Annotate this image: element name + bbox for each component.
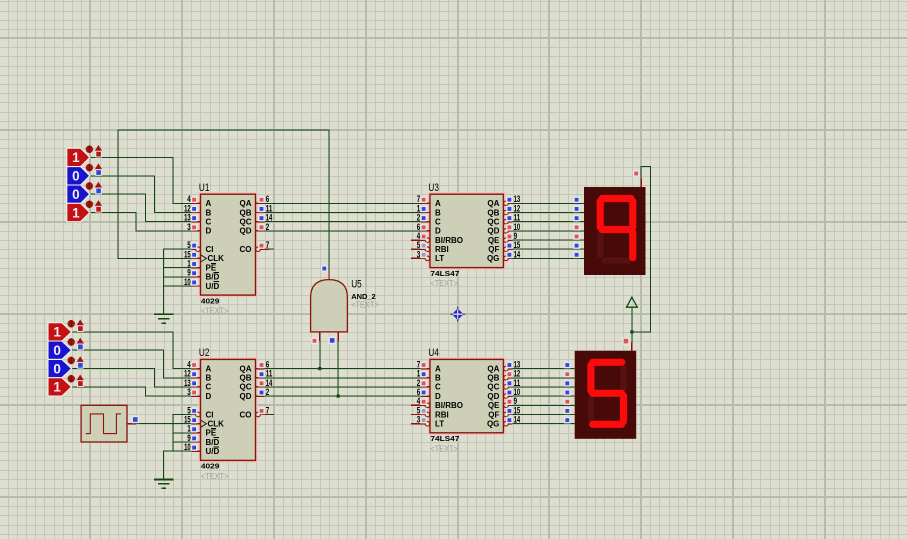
DS1 unlit segments [600, 235, 628, 261]
svg-text:U5: U5 [351, 278, 362, 290]
wire U3.QC to DS1 segment c [513, 221, 584, 223]
svg-text:QB: QB [487, 374, 499, 383]
U3 pin 14 number+state square [507, 249, 520, 259]
U1 pin 11 number+state square [259, 203, 272, 213]
clock output state square [132, 417, 138, 423]
clock generator CLK1 body [81, 405, 127, 442]
wire U2.CI tie [173, 415, 191, 452]
U1 pin 13 number+state square [184, 213, 197, 223]
svg-text:QB: QB [240, 208, 252, 217]
wire STATE8 to U2.D [72, 387, 192, 396]
svg-text:2: 2 [266, 387, 270, 397]
svg-text:10: 10 [184, 277, 191, 287]
wire STATE7 to U2.C [72, 369, 192, 387]
svg-text:QA: QA [240, 364, 252, 373]
logic state STATE6 value 0 [48, 341, 72, 359]
svg-text:A: A [435, 364, 441, 373]
wire U2.QA to U4.A [265, 368, 421, 370]
svg-text:QE: QE [488, 236, 500, 245]
svg-text:CLK: CLK [208, 420, 225, 429]
U4 pin 1 number+state square [417, 369, 427, 379]
logic state STATE5 value 1 [48, 323, 72, 341]
wire U1.B/D tie [164, 276, 192, 278]
U4 pin 3 number+state square [417, 415, 427, 425]
wire U4.QD to DS2 segment d [513, 395, 575, 397]
logic state STATE8 value 1 [48, 378, 72, 396]
U2 pin 10 number+state square [184, 442, 197, 452]
U1 CLK clock wedge pin 15 [201, 255, 207, 262]
svg-text:U1: U1 [199, 182, 210, 194]
svg-text:RBI: RBI [435, 410, 449, 419]
wire CLOCK to U2.CLK [127, 423, 191, 425]
logic state STATE1 toggle button [86, 145, 102, 157]
svg-text:QF: QF [488, 410, 499, 419]
svg-text:AND_2: AND_2 [351, 292, 376, 301]
svg-text:QC: QC [487, 383, 499, 392]
wire U1.PE tie [164, 267, 192, 269]
U1 pin 15 number+state square [184, 249, 197, 259]
svg-text:LT: LT [435, 254, 444, 263]
svg-text:B/D: B/D [206, 438, 220, 447]
U2 pin 3 number+state square [187, 387, 197, 397]
U2 pin 5 number+state square [187, 405, 197, 415]
U3 pin 7 number+state square [417, 194, 427, 204]
logic state STATE4 value 1 [67, 203, 90, 221]
wire STATE4 to U1.D [90, 213, 192, 231]
U5 input state squares [312, 337, 335, 343]
DS1 common pin state square [634, 171, 639, 176]
svg-text:PE: PE [206, 263, 217, 272]
U1 pin 2 number+state square [259, 222, 269, 232]
U4 pin 11 number+state square [507, 378, 520, 388]
wire U4.QB to DS2 segment b [513, 377, 575, 379]
wire U2.QC to U4.C [265, 386, 421, 388]
logic state STATE2 toggle button [86, 163, 102, 175]
svg-text:BI/RBO: BI/RBO [435, 401, 463, 410]
svg-text:U/D: U/D [206, 447, 220, 456]
wire STATE6 to U2.B [72, 350, 192, 378]
svg-text:C: C [435, 383, 441, 392]
IC U3 (74LS47) body [429, 193, 504, 268]
svg-text:74LS47: 74LS47 [430, 434, 459, 443]
wire U4.QG to DS2 segment g [513, 423, 575, 425]
svg-text:PE: PE [206, 429, 217, 438]
wire U3.QA to DS1 segment a [513, 202, 584, 204]
wire DS1 common anode net [632, 167, 650, 343]
junction U2.QD / U5 input [337, 395, 340, 398]
wire STATE3 to U1.C [90, 194, 192, 222]
U3 pin 9 number+state square [507, 231, 517, 241]
svg-text:14: 14 [514, 249, 521, 259]
U2 pin 6 number+state square [259, 360, 269, 370]
U3 pin 12 number+state square [507, 203, 520, 213]
svg-text:CO: CO [240, 245, 252, 254]
svg-text:RBI: RBI [435, 245, 449, 254]
svg-text:LT: LT [435, 420, 444, 429]
U3 pin 10 number+state square [507, 222, 520, 232]
svg-text:1: 1 [53, 380, 61, 395]
junction DS2 common / power stem [630, 330, 633, 333]
U4 pin 2 number+state square [417, 378, 427, 388]
wire STATE2 to U1.B [90, 176, 192, 213]
svg-text:CI: CI [206, 410, 214, 419]
svg-text:3: 3 [417, 249, 421, 259]
logic state STATE7 value 0 [48, 359, 72, 377]
svg-text:U2: U2 [199, 347, 210, 359]
svg-text:QC: QC [240, 218, 252, 227]
wire U1.QA to U3.A [265, 202, 421, 204]
wire U1.QB to U3.B [265, 212, 421, 214]
U4 pin 4 number+state square [417, 396, 427, 406]
wire U2.B/D tie [173, 441, 191, 443]
ground GND2 (U2 control pins) [154, 480, 173, 489]
logic state STATE4 toggle button [86, 200, 102, 212]
svg-text:QB: QB [240, 374, 252, 383]
svg-text:<TEXT>: <TEXT> [430, 444, 458, 453]
U5 output pin stub [328, 271, 330, 280]
DS2 lit segments showing digit [591, 362, 624, 424]
logic state STATE3 value 0 [67, 185, 90, 203]
svg-text:4029: 4029 [201, 462, 220, 471]
svg-text:QC: QC [487, 218, 499, 227]
DS2 segment pin state squares [565, 362, 570, 422]
wire POWER terminal stem [631, 307, 633, 332]
U3 pin 6 number+state square [417, 222, 427, 232]
U1 pin 12 number+state square [184, 203, 197, 213]
DS2 unlit segments [591, 368, 624, 419]
U2 pin 1 number+state square [187, 424, 197, 434]
U4 pin 5 number+state square [417, 405, 427, 415]
U2 CLK clock wedge pin 15 [201, 420, 207, 427]
U2 CO bubble pin 7 [256, 412, 261, 417]
U5 output state square [322, 266, 327, 271]
svg-text:14: 14 [514, 415, 521, 425]
logic state STATE5 toggle button [68, 320, 85, 332]
U1 pin 9 number+state square [187, 268, 197, 278]
svg-text:B: B [435, 208, 441, 217]
svg-text:7: 7 [266, 405, 270, 415]
IC U1 (4029) body [200, 193, 257, 296]
svg-text:2: 2 [266, 222, 270, 232]
svg-text:C: C [435, 218, 441, 227]
U1 pin 6 number+state square [259, 194, 269, 204]
DS1 lit segments showing digit [600, 199, 633, 258]
U1 pin 10 number+state square [184, 277, 197, 287]
svg-text:0: 0 [72, 169, 80, 184]
U2 pin 13 number+state square [184, 378, 197, 388]
svg-text:D: D [206, 392, 212, 401]
IC U2 (4029) body [200, 358, 257, 461]
svg-text:C: C [206, 383, 212, 392]
junction U2.QA / U5 input [318, 367, 321, 370]
wire U5 output to U1.CLK [118, 130, 329, 271]
U3 pin 13 number+state square [507, 194, 520, 204]
svg-text:QC: QC [240, 383, 252, 392]
U2 pin 15 number+state square [184, 415, 197, 425]
U4 pin 6 number+state square [417, 387, 427, 397]
U2 pin 11 number+state square [259, 369, 272, 379]
wire U1.QC to U3.C [265, 221, 421, 223]
DS2 common pin stub [631, 342, 633, 351]
U2 pin name labels [206, 364, 252, 456]
svg-text:1: 1 [72, 205, 80, 220]
svg-text:10: 10 [184, 442, 191, 452]
U1 CI bubble pin 5 [196, 247, 201, 252]
svg-text:A: A [206, 364, 212, 373]
7-segment display DS2 body [575, 351, 637, 439]
U3 pin name labels [435, 199, 500, 263]
svg-text:<TEXT>: <TEXT> [201, 472, 229, 481]
U3 pin 5 number+state square [417, 240, 427, 250]
U3 pin 2 number+state square [417, 213, 427, 223]
svg-text:<TEXT>: <TEXT> [430, 279, 458, 288]
U3 input bubbles (BI/RBO, RBI, LT) [425, 238, 430, 261]
wire U1.CO stub end [265, 248, 274, 250]
svg-text:CLK: CLK [208, 254, 225, 263]
svg-text:74LS47: 74LS47 [430, 269, 459, 278]
logic state STATE1 value 1 [67, 148, 90, 166]
DS2 common pin state square [623, 338, 629, 344]
svg-text:U4: U4 [428, 347, 439, 359]
U3 pin 15 number+state square [507, 240, 520, 250]
U1 pin 5 number+state square [187, 240, 197, 250]
svg-text:0: 0 [53, 361, 61, 376]
ground GND1 (U1 control pins) [154, 314, 173, 323]
U2 pin stubs [191, 369, 269, 452]
U3 pin 4 number+state square [417, 231, 427, 241]
svg-text:QD: QD [487, 227, 499, 236]
U2 pin 7 number+state square [259, 405, 269, 415]
U5 input pin stubs [320, 332, 338, 341]
svg-text:QD: QD [240, 392, 252, 401]
U4 pin name labels [435, 364, 500, 428]
svg-text:QG: QG [487, 420, 499, 429]
U4 pin 10 number+state square [507, 387, 520, 397]
wire U5 input1 from U2.QA [319, 304, 321, 368]
wire U4.QE to DS2 segment e [513, 404, 575, 406]
wire U3.QG to DS1 segment g [513, 257, 584, 259]
wire U1.QD to U3.D [265, 230, 421, 232]
wire U4.QA to DS2 segment a [513, 368, 575, 370]
svg-text:<TEXT>: <TEXT> [201, 307, 229, 316]
IC U4 (74LS47) body [429, 358, 504, 433]
svg-text:1: 1 [72, 150, 80, 165]
wire U1.CI tie [164, 249, 192, 313]
svg-text:C: C [206, 218, 212, 227]
U3 pin 1 number+state square [417, 203, 427, 213]
U1 pin 3 number+state square [187, 222, 197, 232]
svg-text:B: B [435, 374, 441, 383]
wire U3.QD to DS1 segment d [513, 230, 584, 232]
clock output pin stub [127, 423, 136, 425]
svg-text:BI/RBO: BI/RBO [435, 236, 463, 245]
wire U3.QF to DS1 segment f [513, 248, 584, 250]
svg-text:QA: QA [487, 199, 499, 208]
logic state STATE2 value 0 [67, 167, 90, 185]
svg-text:D: D [435, 227, 441, 236]
svg-text:CO: CO [240, 410, 252, 419]
U1 pin 14 number+state square [259, 213, 272, 223]
svg-text:B: B [206, 374, 212, 383]
wire U2.CO stub end [265, 414, 274, 416]
wire U1.U/D tie [164, 285, 192, 287]
power terminal (displays common) [627, 297, 638, 307]
svg-text:1: 1 [53, 325, 61, 340]
U2 pin 4 number+state square [187, 360, 197, 370]
svg-text:QA: QA [240, 199, 252, 208]
DS1 common pin stub [640, 178, 642, 187]
wire U2.U/D tie to ground [164, 451, 192, 479]
wire U3.QB to DS1 segment b [513, 212, 584, 214]
U1 pin name labels [206, 199, 252, 291]
U1 pin 7 number+state square [259, 240, 269, 250]
DS1 segment pin state squares [574, 197, 579, 257]
U4 output bubbles (QA-QG) [504, 366, 509, 426]
wire STATE1 to U1.A [90, 157, 192, 203]
U4 pin 12 number+state square [507, 369, 520, 379]
wire U4.QC to DS2 segment c [513, 386, 575, 388]
svg-text:QA: QA [487, 364, 499, 373]
U4 pin stubs [411, 369, 513, 424]
U4 pin 13 number+state square [507, 360, 520, 370]
wire U3.QE to DS1 segment e [513, 239, 584, 241]
svg-text:QD: QD [240, 227, 252, 236]
svg-text:CI: CI [206, 245, 214, 254]
U4 pin 7 number+state square [417, 360, 427, 370]
U3 pin stubs [411, 203, 513, 258]
logic state STATE7 toggle button [68, 356, 85, 368]
U1 CO bubble pin 7 [256, 247, 261, 252]
svg-text:3: 3 [417, 415, 421, 425]
svg-text:U/D: U/D [206, 282, 220, 291]
U2 CI bubble pin 5 [196, 412, 201, 417]
svg-text:3: 3 [187, 387, 191, 397]
wire U5 input2 from U2.QD [337, 304, 339, 396]
svg-text:7: 7 [266, 240, 270, 250]
svg-text:QB: QB [487, 208, 499, 217]
wire U2.PE tie [173, 432, 191, 434]
wire U2.QD to U4.D [265, 395, 421, 397]
svg-text:QG: QG [487, 254, 499, 263]
logic state STATE6 toggle button [68, 338, 85, 350]
U3 output bubbles (QA-QG) [504, 201, 509, 261]
svg-text:B: B [206, 208, 212, 217]
U2 pin 9 number+state square [187, 433, 197, 443]
svg-text:4029: 4029 [201, 296, 220, 305]
svg-text:U3: U3 [428, 182, 439, 194]
U4 input bubbles (BI/RBO, RBI, LT) [425, 403, 430, 426]
wire U4.QF to DS2 segment f [513, 414, 575, 416]
U2 pin 14 number+state square [259, 378, 272, 388]
svg-text:QF: QF [488, 245, 499, 254]
svg-text:<TEXT>: <TEXT> [351, 301, 379, 310]
svg-text:QD: QD [487, 392, 499, 401]
U1 pin stubs [191, 203, 269, 286]
svg-text:0: 0 [72, 187, 80, 202]
svg-text:A: A [206, 199, 212, 208]
U4 pin 9 number+state square [507, 396, 517, 406]
origin marker [450, 307, 465, 322]
wire STATE5 to U2.A [72, 332, 192, 369]
svg-text:0: 0 [53, 343, 61, 358]
svg-text:D: D [435, 392, 441, 401]
U2 pin 2 number+state square [259, 387, 269, 397]
svg-text:A: A [435, 199, 441, 208]
logic state STATE8 toggle button [68, 375, 85, 387]
svg-text:D: D [206, 227, 212, 236]
U1 pin 1 number+state square [187, 259, 197, 269]
U2 pin 12 number+state square [184, 369, 197, 379]
7-segment display DS1 body [584, 187, 646, 275]
svg-text:B/D: B/D [206, 273, 220, 282]
AND gate U5 body [311, 280, 348, 332]
U4 pin 15 number+state square [507, 405, 520, 415]
svg-text:QE: QE [488, 401, 500, 410]
U4 pin 14 number+state square [507, 415, 520, 425]
logic state STATE3 toggle button [86, 182, 102, 194]
wire U2.QB to U4.B [265, 377, 421, 379]
svg-text:3: 3 [187, 222, 191, 232]
U3 pin 11 number+state square [507, 213, 520, 223]
U1 pin 4 number+state square [187, 194, 197, 204]
U3 pin 3 number+state square [417, 249, 427, 259]
